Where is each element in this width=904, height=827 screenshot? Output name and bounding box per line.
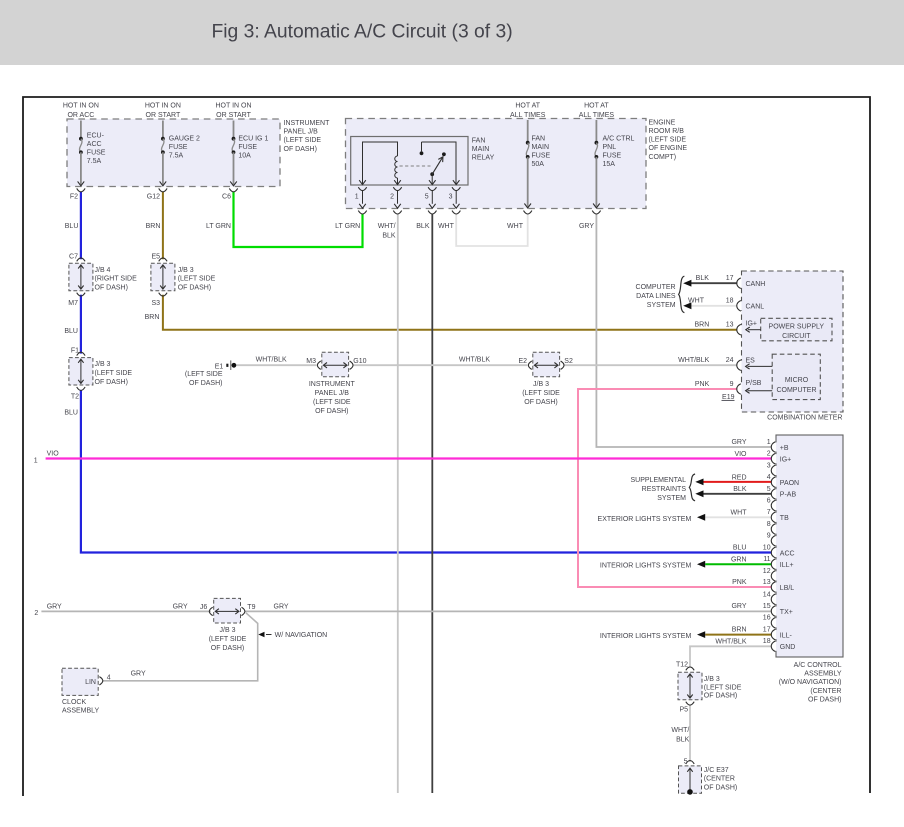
svg-text:6: 6 (767, 498, 771, 505)
svg-text:P/SB: P/SB (746, 380, 762, 387)
wire LT GRN: fuse C6 to fan main relay pin 1 (234, 192, 363, 247)
svg-text:HOT AT: HOT AT (584, 102, 609, 109)
svg-text:M3: M3 (306, 358, 316, 365)
wire WHT/BLK: ground E1 to connector M3 (236, 364, 316, 366)
wire WHT/BLK: A/C control pin 18 GND to J/B3 T12 (690, 646, 772, 666)
A/C control pin 8 (767, 521, 778, 534)
svg-text:11: 11 (763, 556, 770, 563)
connector E2/S2 J/B 3 (459, 352, 573, 406)
A/C control pin 18 (715, 638, 795, 651)
svg-text:4: 4 (107, 675, 111, 682)
svg-text:GRY: GRY (731, 603, 746, 610)
fuse: GAUGE 2 FUSE 7.5A (145, 102, 200, 230)
svg-text:OF DASH): OF DASH) (524, 399, 557, 406)
wire WHT: relay pin 3 to FAN MAIN FUSE (456, 214, 528, 246)
svg-text:GRY: GRY (131, 671, 146, 678)
svg-text:J/B 3: J/B 3 (178, 267, 194, 274)
svg-text:T2: T2 (71, 394, 79, 401)
wire WHT/BLK: J/B3 P5 to J/C E37 pin 5 (689, 705, 691, 763)
svg-text:G12: G12 (147, 194, 160, 201)
svg-text:FUSE: FUSE (87, 150, 106, 157)
svg-text:INSTRUMENT: INSTRUMENT (309, 381, 356, 388)
svg-text:COMPUTER: COMPUTER (776, 387, 816, 394)
junction block connector J/B 4 (C7/M7) (64, 253, 137, 335)
svg-text:OF DASH): OF DASH) (704, 785, 737, 792)
junction box: INSTRUMENT PANEL J/B (LEFT SIDE OF DASH) (67, 119, 330, 187)
A/C control pin 7 (731, 509, 790, 522)
svg-text:3: 3 (449, 194, 453, 201)
svg-text:INTERIOR LIGHTS SYSTEM: INTERIOR LIGHTS SYSTEM (600, 633, 692, 640)
svg-text:(LEFT SIDE: (LEFT SIDE (178, 276, 216, 283)
svg-text:CIRCUIT: CIRCUIT (782, 333, 811, 340)
svg-text:M7: M7 (68, 300, 78, 307)
svg-text:(LEFT SIDE: (LEFT SIDE (95, 370, 133, 377)
svg-text:9: 9 (767, 533, 771, 540)
svg-text:ALL TIMES: ALL TIMES (579, 112, 615, 119)
svg-text:WHT: WHT (507, 223, 524, 230)
svg-text:OF DASH): OF DASH) (211, 645, 244, 652)
wire GRY: A/C CTRL PNL FUSE to A/C control pin 1 +B (596, 214, 771, 447)
svg-text:CANL: CANL (746, 304, 765, 311)
svg-text:GRN: GRN (731, 556, 747, 563)
svg-text:A/C CONTROL: A/C CONTROL (794, 662, 842, 669)
svg-text:18: 18 (726, 298, 734, 305)
svg-text:CANH: CANH (746, 281, 766, 288)
ground at E37 (687, 789, 693, 795)
wire PNK: meter pin 9 P/SB to A/C control pin 13 LB/L (578, 389, 772, 587)
svg-text:17: 17 (763, 626, 771, 633)
A/C control assembly box (776, 435, 843, 704)
svg-text:C7: C7 (69, 253, 78, 260)
svg-text:HOT AT: HOT AT (515, 102, 540, 109)
A/C control pin 15 (731, 603, 792, 616)
svg-text:COMPT): COMPT) (649, 154, 677, 161)
svg-text:(CENTER: (CENTER (810, 688, 841, 695)
wire WHT/BLK: connector G10 to connector E2 (354, 364, 528, 366)
svg-text:GAUGE 2: GAUGE 2 (169, 136, 200, 143)
svg-text:OF DASH): OF DASH) (95, 284, 128, 291)
svg-text:OF DASH): OF DASH) (284, 146, 317, 153)
svg-text:ROOM R/B: ROOM R/B (649, 128, 685, 135)
wire WHT/BLK: relay pin 2 down to page bottom (397, 214, 399, 793)
svg-text:ACC: ACC (780, 550, 795, 557)
svg-text:E19: E19 (722, 394, 735, 401)
svg-text:J/B 3: J/B 3 (533, 381, 549, 388)
svg-text:J/B 4: J/B 4 (95, 267, 111, 274)
svg-text:FUSE: FUSE (238, 144, 257, 151)
svg-text:OR ACC: OR ACC (67, 112, 94, 119)
power supply circuit (746, 318, 832, 341)
wire WHT: exterior lights system to pin 7 TB (705, 516, 772, 518)
svg-text:GRY: GRY (173, 604, 188, 611)
wire GRY: J/B3 T9 to A/C control pin 15 TX+ (245, 610, 772, 612)
svg-text:TB: TB (780, 515, 789, 522)
wire VIO: net 1 to A/C control pin 2 IG+ (46, 457, 772, 459)
svg-text:4: 4 (767, 474, 771, 481)
svg-text:2: 2 (390, 194, 394, 201)
svg-text:FAN: FAN (472, 138, 486, 145)
relay pin 1 (355, 180, 367, 214)
svg-text:C6: C6 (222, 194, 231, 201)
wire BLU: fuse F2 to J/B4 C7 (80, 192, 82, 260)
svg-text:BLU: BLU (65, 223, 79, 230)
svg-text:GRY: GRY (731, 439, 746, 446)
svg-text:17: 17 (726, 275, 734, 282)
svg-text:J/C E37: J/C E37 (704, 767, 729, 774)
svg-text:(LEFT SIDE: (LEFT SIDE (185, 371, 223, 378)
svg-text:(LEFT SIDE: (LEFT SIDE (522, 390, 560, 397)
svg-text:BLU: BLU (64, 328, 78, 335)
exterior lights system (598, 514, 706, 523)
svg-text:BRN: BRN (695, 322, 710, 329)
net 2 GRY (34, 604, 288, 617)
svg-text:BRN: BRN (146, 223, 161, 230)
svg-text:15A: 15A (603, 161, 616, 168)
svg-text:ECU IG 1: ECU IG 1 (238, 136, 268, 143)
svg-text:LIN: LIN (85, 679, 96, 686)
relay: FAN MAIN RELAY (351, 137, 495, 186)
A/C control pin 9 (767, 533, 778, 546)
svg-text:OF DASH): OF DASH) (704, 693, 737, 700)
clock assembly (62, 668, 146, 714)
relay pin 5 (425, 180, 437, 214)
svg-text:(CENTER: (CENTER (704, 776, 735, 783)
svg-text:OF ENGINE: OF ENGINE (649, 145, 688, 152)
A/C control pin 10 (733, 544, 795, 557)
svg-text:LT GRN: LT GRN (206, 223, 231, 230)
svg-text:OF DASH): OF DASH) (95, 379, 128, 386)
meter pin 24 ES (678, 357, 755, 370)
svg-text:BLK: BLK (382, 232, 396, 239)
A/C control pin 11 (731, 556, 794, 569)
A/C control pin 14 (763, 591, 778, 604)
svg-text:10A: 10A (238, 152, 251, 159)
svg-text:J6: J6 (200, 604, 208, 611)
svg-text:OR START: OR START (216, 112, 251, 119)
svg-text:ILL-: ILL- (780, 632, 793, 639)
fuse: ECU IG 1 FUSE 10A (206, 102, 268, 230)
svg-text:COMBINATION METER: COMBINATION METER (767, 415, 842, 422)
svg-text:GRY: GRY (274, 604, 289, 611)
fuse: A/C CTRL PNL FUSE 15A (579, 102, 635, 230)
svg-text:(LEFT SIDE: (LEFT SIDE (209, 636, 247, 643)
svg-text:VIO: VIO (47, 450, 60, 457)
svg-text:HOT IN ON: HOT IN ON (215, 102, 251, 109)
relay pin wire labels (335, 223, 454, 239)
svg-text:OF DASH): OF DASH) (178, 284, 211, 291)
svg-text:16: 16 (763, 615, 771, 622)
svg-text:CLOCK: CLOCK (62, 699, 86, 706)
svg-text:15: 15 (763, 603, 771, 610)
svg-text:ASSEMBLY: ASSEMBLY (62, 708, 100, 715)
svg-text:P5: P5 (679, 707, 688, 714)
svg-text:WHT/BLK: WHT/BLK (715, 638, 746, 645)
svg-text:SYSTEM: SYSTEM (647, 302, 676, 309)
junction block connector J/B 3 (E5/S3) (145, 253, 216, 321)
A/C control pin 6 (767, 498, 778, 511)
svg-text:FUSE: FUSE (532, 153, 551, 160)
svg-text:INSTRUMENT: INSTRUMENT (284, 120, 331, 127)
svg-text:OF DASH): OF DASH) (189, 380, 222, 387)
svg-text:F2: F2 (70, 194, 78, 201)
svg-text:F1: F1 (71, 348, 79, 355)
svg-text:5: 5 (425, 194, 429, 201)
wire GRY: net 2 to J/B3 J6 (41, 610, 210, 612)
svg-text:9: 9 (730, 381, 734, 388)
svg-text:WHT/: WHT/ (378, 223, 396, 230)
svg-text:A/C CTRL: A/C CTRL (603, 136, 635, 143)
svg-text:J/B 3: J/B 3 (704, 676, 720, 683)
svg-text:BLU: BLU (64, 410, 78, 417)
svg-text:IG+: IG+ (780, 457, 791, 464)
meter pin 9 P/SB (695, 380, 762, 394)
svg-text:HOT IN ON: HOT IN ON (63, 102, 99, 109)
junction block connector J/B 3 (T12/P5) (671, 662, 741, 744)
A/C control pin 5 (733, 486, 796, 499)
A/C control pin 3 (767, 462, 778, 475)
combination meter box (742, 271, 844, 422)
svg-text:EXTERIOR LIGHTS SYSTEM: EXTERIOR LIGHTS SYSTEM (598, 516, 692, 523)
svg-text:WHT/: WHT/ (671, 727, 689, 734)
svg-text:IG+: IG+ (746, 320, 757, 327)
svg-text:2: 2 (767, 451, 771, 458)
wire BLU: J/B3 T2 to A/C control pin 10 ACC (81, 390, 772, 553)
svg-text:13: 13 (763, 579, 771, 586)
svg-text:E1: E1 (215, 364, 224, 371)
svg-text:WHT: WHT (731, 509, 748, 516)
svg-text:RED: RED (732, 474, 747, 481)
svg-text:INTERIOR LIGHTS SYSTEM: INTERIOR LIGHTS SYSTEM (600, 563, 692, 570)
svg-text:BLK: BLK (416, 223, 430, 230)
svg-text:GND: GND (780, 644, 796, 651)
svg-text:(W/O NAVIGATION): (W/O NAVIGATION) (779, 679, 842, 686)
junction block connector J/B 3 (F1/T2) (64, 348, 132, 417)
wire BLU: J/B4 M7 to J/B3 F1 (80, 295, 82, 354)
svg-text:13: 13 (726, 322, 734, 329)
svg-text:7: 7 (767, 509, 771, 516)
svg-text:Fig 3: Automatic A/C Circuit (: Fig 3: Automatic A/C Circuit (3 of 3) (212, 21, 513, 42)
svg-text:PAON: PAON (780, 480, 799, 487)
svg-text:+B: +B (780, 445, 789, 452)
fuse: FAN MAIN FUSE 50A (507, 102, 550, 230)
micro computer (746, 354, 821, 399)
svg-text:P-AB: P-AB (780, 492, 797, 499)
svg-text:(LEFT SIDE: (LEFT SIDE (313, 399, 351, 406)
svg-text:T9: T9 (247, 604, 255, 611)
svg-text:LB/L: LB/L (780, 585, 795, 592)
svg-text:RESTRAINTS: RESTRAINTS (642, 486, 687, 493)
svg-text:BLK: BLK (696, 275, 710, 282)
svg-text:14: 14 (763, 591, 771, 598)
svg-text:SUPPLEMENTAL: SUPPLEMENTAL (631, 477, 687, 484)
svg-text:1: 1 (34, 457, 38, 464)
svg-text:(LEFT SIDE: (LEFT SIDE (704, 684, 742, 691)
svg-text:(RIGHT SIDE: (RIGHT SIDE (95, 276, 138, 283)
svg-text:W/ NAVIGATION: W/ NAVIGATION (275, 632, 328, 639)
fuse: ECU-ACC FUSE 7.5A (63, 102, 106, 230)
svg-text:J/B 3: J/B 3 (95, 361, 111, 368)
svg-text:MAIN: MAIN (532, 144, 550, 151)
A/C control pin 16 (763, 615, 778, 628)
svg-text:COMPUTER: COMPUTER (636, 284, 676, 291)
wire BLK: relay pin 5 down to page bottom (431, 214, 433, 793)
svg-text:WHT/BLK: WHT/BLK (678, 357, 709, 364)
svg-text:FUSE: FUSE (169, 144, 188, 151)
svg-text:T12: T12 (676, 662, 688, 669)
svg-text:PANEL J/B: PANEL J/B (315, 390, 350, 397)
interior lights system (pin 11) (600, 561, 705, 570)
connector M3/G10 INSTRUMENT PANEL J/B (256, 352, 367, 415)
svg-text:J/B 3: J/B 3 (220, 627, 236, 634)
svg-text:(LEFT SIDE: (LEFT SIDE (649, 137, 687, 144)
svg-text:OF DASH): OF DASH) (808, 697, 841, 704)
meter pin 18 CANL (688, 298, 764, 311)
svg-text:PNK: PNK (732, 579, 747, 586)
svg-text:WHT/BLK: WHT/BLK (256, 357, 287, 364)
svg-text:7.5A: 7.5A (87, 158, 102, 165)
svg-text:PANEL J/B: PANEL J/B (284, 129, 319, 136)
svg-text:BLU: BLU (733, 545, 747, 552)
svg-text:7.5A: 7.5A (169, 152, 184, 159)
svg-text:TX+: TX+ (780, 609, 793, 616)
svg-text:5: 5 (684, 758, 688, 765)
svg-text:OF DASH): OF DASH) (315, 408, 348, 415)
svg-text:ASSEMBLY: ASSEMBLY (804, 671, 842, 678)
svg-text:50A: 50A (532, 161, 545, 168)
ground connector J/C E37 (CENTER OF DASH) (679, 758, 738, 794)
svg-text:1: 1 (355, 194, 359, 201)
A/C control pin 13 (732, 579, 794, 592)
wire BLK: supplemental restraints system to pin 5 P-AB (703, 493, 772, 495)
wire BLK: computer data lines system to meter pin 17 CANH (690, 282, 737, 284)
A/C control pin 1 (731, 439, 788, 452)
relay pin 3 (449, 180, 461, 214)
svg-text:GRY: GRY (47, 604, 62, 611)
wire RED: supplemental restraints system to pin 4 PAON (703, 481, 772, 483)
svg-text:MICRO: MICRO (785, 377, 809, 384)
svg-text:FAN: FAN (532, 136, 546, 143)
wire GRN: interior lights system to pin 11 ILL+ (705, 563, 772, 565)
svg-text:24: 24 (726, 357, 734, 364)
wire BRN: J/B3 S3 to combination meter pin 13 IG+ (163, 295, 737, 330)
svg-text:MAIN: MAIN (472, 146, 490, 153)
supplemental restraints system (631, 474, 704, 502)
svg-text:3: 3 (767, 462, 771, 469)
svg-text:POWER SUPPLY: POWER SUPPLY (769, 324, 825, 331)
svg-text:ECU-: ECU- (87, 133, 105, 140)
meter pin 17 CANH (696, 275, 766, 288)
svg-text:WHT: WHT (438, 223, 455, 230)
svg-text:18: 18 (763, 638, 771, 645)
svg-text:ENGINE: ENGINE (649, 119, 676, 126)
interior lights system (pin 17) (600, 631, 705, 640)
svg-text:GRY: GRY (579, 223, 594, 230)
svg-text:BRN: BRN (732, 627, 747, 634)
svg-text:SYSTEM: SYSTEM (657, 495, 686, 502)
wire WHT: computer data lines system to meter pin 18 CANL (690, 305, 737, 307)
svg-text:ES: ES (746, 358, 756, 365)
svg-text:5: 5 (767, 486, 771, 493)
svg-text:PNL: PNL (603, 144, 617, 151)
svg-text:(LEFT SIDE: (LEFT SIDE (284, 137, 322, 144)
svg-text:E2: E2 (518, 358, 527, 365)
ground reference E19 (722, 394, 735, 401)
svg-text:G10: G10 (353, 358, 366, 365)
relay box: ENGINE ROOM R/B (LEFT SIDE OF ENGINE COMPT) (346, 119, 688, 209)
svg-text:2: 2 (34, 610, 38, 617)
svg-text:E5: E5 (151, 253, 160, 260)
svg-text:8: 8 (767, 521, 771, 528)
svg-text:HOT IN ON: HOT IN ON (145, 102, 181, 109)
wire WHT/BLK: connector S2 to meter pin 24 ES (565, 364, 738, 366)
wire GRY: clock assembly LIN pin 4 to J/B3 T9, w/ navigation branch (103, 613, 258, 681)
svg-text:S2: S2 (564, 358, 573, 365)
svg-text:WHT/BLK: WHT/BLK (459, 357, 490, 364)
wire BRN: interior lights system to pin 17 ILL- (705, 634, 772, 636)
svg-text:DATA LINES: DATA LINES (636, 293, 676, 300)
svg-text:ILL+: ILL+ (780, 562, 794, 569)
meter pin 13 IG+ (695, 320, 757, 335)
A/C control pin 12 (763, 568, 778, 581)
computer data lines system (636, 276, 692, 312)
svg-text:10: 10 (763, 544, 771, 551)
svg-text:FUSE: FUSE (603, 153, 622, 160)
A/C control pin 4 (732, 474, 799, 487)
svg-text:PNK: PNK (695, 381, 710, 388)
svg-text:ACC: ACC (87, 141, 102, 148)
svg-text:BRN: BRN (145, 314, 160, 321)
A/C control pin 17 (732, 626, 793, 639)
svg-text:LT GRN: LT GRN (335, 223, 360, 230)
w/ navigation branch arrow (258, 632, 327, 640)
svg-text:OR START: OR START (146, 112, 181, 119)
relay switch (422, 142, 457, 184)
svg-text:1: 1 (767, 439, 771, 446)
title banner: Fig 3: Automatic A/C Circuit (3 of 3) (0, 0, 904, 65)
A/C control pin 2 (734, 451, 791, 464)
svg-text:VIO: VIO (734, 451, 747, 458)
net 1 VIO (34, 450, 60, 464)
svg-text:S3: S3 (151, 300, 160, 307)
wire BRN: fuse G12 to J/B3 E5 (162, 192, 164, 260)
relay coil (395, 156, 398, 178)
connector J6/T9 J/B 3 (200, 598, 256, 651)
svg-text:BLK: BLK (676, 736, 690, 743)
svg-text:12: 12 (763, 568, 771, 575)
svg-text:BLK: BLK (733, 486, 747, 493)
relay pin 2 (390, 180, 402, 214)
ground E1 (LEFT SIDE OF DASH) (185, 360, 236, 387)
svg-text:RELAY: RELAY (472, 155, 495, 162)
svg-text:ALL TIMES: ALL TIMES (510, 112, 546, 119)
